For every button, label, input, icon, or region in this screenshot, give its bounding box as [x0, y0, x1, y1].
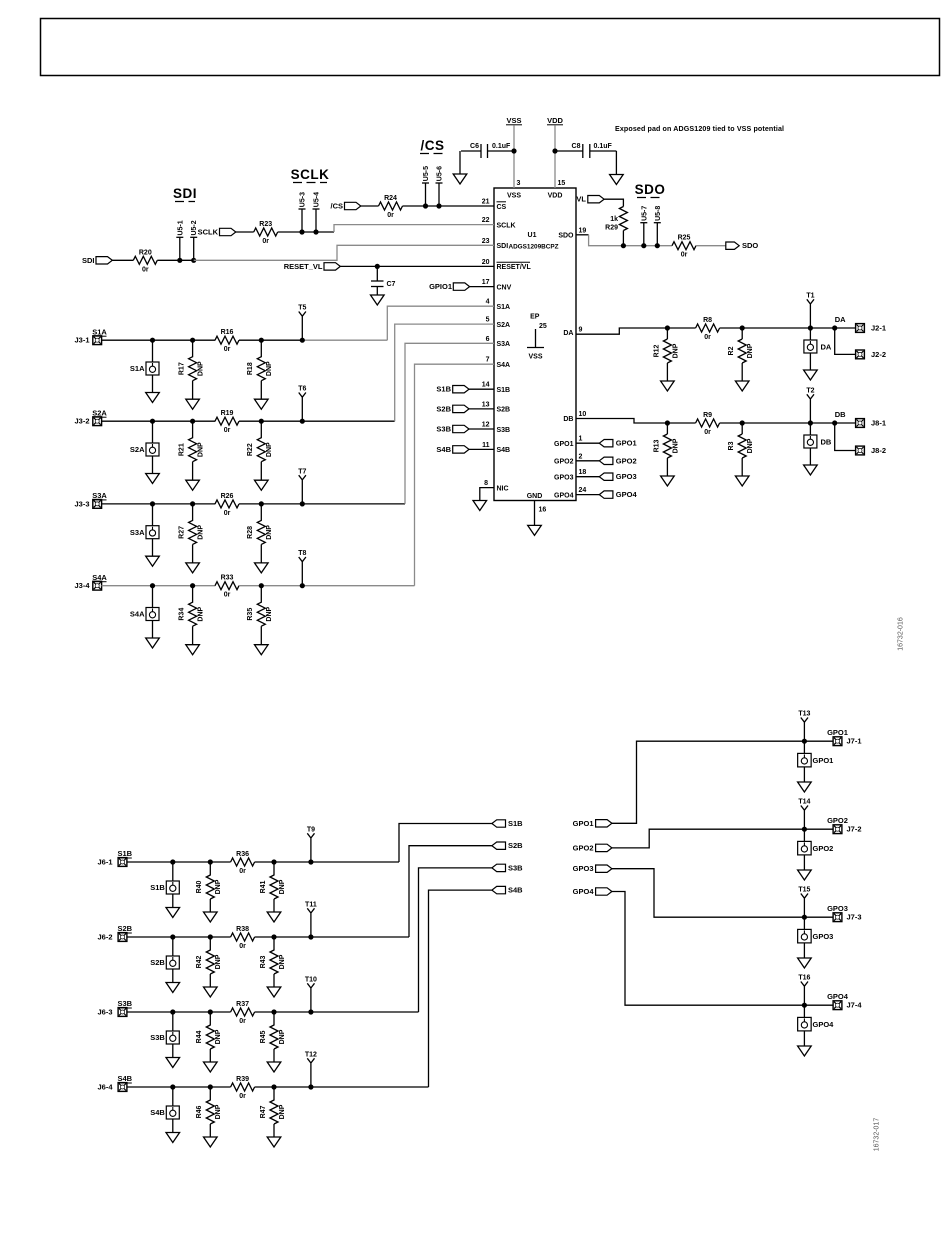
svg-text:R41: R41 — [260, 880, 267, 893]
svg-text:T14: T14 — [798, 799, 810, 806]
wire U1 pin 16 GND to ground — [534, 501, 536, 526]
svg-text:R36: R36 — [236, 851, 249, 858]
junction DB/R3 — [740, 420, 745, 425]
svg-text:R45: R45 — [260, 1030, 267, 1043]
svg-text:0r: 0r — [704, 429, 711, 436]
net label S4A — [92, 573, 107, 582]
connector J3-4 — [74, 581, 101, 590]
net label VDD (power) — [547, 116, 563, 125]
wire R38 to riser — [255, 936, 409, 938]
svg-text:7: 7 — [486, 357, 490, 364]
resistor R47 DNP — [260, 1087, 286, 1124]
junction GPO4/T16 — [802, 1003, 807, 1008]
resistor R23 0r — [254, 221, 278, 245]
svg-text:R25: R25 — [678, 235, 691, 242]
wire R29 to SDO net — [622, 231, 624, 246]
junction S4B/R47 — [271, 1084, 276, 1089]
svg-text:S3B: S3B — [150, 1033, 165, 1042]
svg-text:0r: 0r — [681, 252, 688, 259]
svg-text:0r: 0r — [224, 346, 231, 353]
connector pin U5-1 — [179, 237, 181, 260]
svg-text:3: 3 — [517, 180, 521, 187]
svg-text:DNP: DNP — [198, 442, 205, 457]
svg-text:U5-6: U5-6 — [437, 166, 444, 181]
wire R19 to riser — [239, 420, 395, 422]
port flag S4B (output) — [492, 886, 523, 895]
svg-text:GPO2: GPO2 — [573, 843, 594, 852]
wire J6-1 to R36 — [127, 861, 231, 863]
junction SDI/U5-1 — [177, 258, 182, 263]
svg-text:S1B: S1B — [497, 387, 511, 394]
wire S1A riser to U1 — [387, 306, 494, 340]
wire J6-2 to R38 — [127, 936, 231, 938]
test point S4A — [130, 586, 159, 621]
svg-text:GPO4: GPO4 — [827, 992, 849, 1001]
svg-text:VSS: VSS — [528, 354, 542, 361]
svg-text:S4B: S4B — [436, 445, 451, 454]
net label VSS (power) — [506, 116, 522, 125]
wire R39 to riser — [255, 1086, 429, 1088]
svg-text:S1B: S1B — [150, 883, 165, 892]
wire RESET_VL to U1 pin 20 — [340, 265, 494, 267]
ground (C6) — [453, 151, 467, 184]
wire S4A riser to U1 — [415, 364, 495, 586]
junction DA/T1 — [808, 325, 813, 330]
svg-text:S3A: S3A — [92, 491, 107, 500]
connector J2-1 — [856, 324, 886, 333]
svg-text:C6: C6 — [470, 143, 479, 150]
port flag GPO2 (input) — [573, 843, 612, 852]
wire R20 to U5 stubs — [157, 259, 193, 261]
svg-text:R13: R13 — [653, 439, 660, 452]
svg-text:S1A: S1A — [92, 327, 107, 336]
svg-text:T1: T1 — [806, 292, 814, 299]
connector pin U5-8 — [656, 223, 658, 246]
resistor R40 DNP — [196, 862, 222, 899]
svg-text:S1A: S1A — [130, 364, 145, 373]
capacitor C7 — [371, 266, 396, 288]
test point DA (square) — [804, 328, 832, 353]
svg-text:ADGS1209BCPZ: ADGS1209BCPZ — [508, 244, 558, 251]
wire R25 to SDO flag — [696, 245, 726, 247]
net label /CS (bus name) — [420, 138, 445, 154]
svg-text:DNP: DNP — [279, 1104, 286, 1119]
svg-text:S2B: S2B — [150, 958, 165, 967]
svg-text:0r: 0r — [224, 592, 231, 599]
ground (GPO3 test point) — [798, 943, 812, 968]
svg-text:R3: R3 — [728, 441, 735, 450]
ground (S3A test point) — [146, 539, 160, 567]
wire S3B riser to flag — [419, 868, 492, 1012]
svg-text:0r: 0r — [239, 1093, 246, 1100]
U1 exposed pad EP pin 25 tied to VSS — [527, 314, 547, 361]
junction S2B/R43 — [271, 934, 276, 939]
svg-text:S1B: S1B — [118, 849, 133, 858]
svg-text:DB: DB — [835, 410, 846, 419]
svg-text:GPO3: GPO3 — [616, 472, 637, 481]
port flag VL (input) — [576, 195, 604, 204]
resistor R22 DNP — [247, 421, 273, 462]
junction DA/branch — [832, 325, 837, 330]
svg-text:R38: R38 — [236, 926, 249, 933]
junction CS/U5-5 — [423, 203, 428, 208]
junction S4A/testpoint — [150, 583, 155, 588]
junction S1A/R17 — [190, 338, 195, 343]
resistor R26 0r — [215, 493, 239, 517]
svg-text:5: 5 — [486, 317, 490, 324]
resistor R9 0r — [696, 412, 720, 436]
junction VSS/C6 — [511, 148, 516, 153]
wire S3A riser to U1 — [405, 343, 494, 504]
ground (R44) — [204, 1049, 218, 1072]
junction DB/R13 — [665, 420, 670, 425]
svg-text:S3B: S3B — [436, 425, 451, 434]
connector J8-1 — [856, 419, 886, 428]
svg-text:J7-4: J7-4 — [847, 1001, 863, 1010]
svg-text:R17: R17 — [179, 362, 186, 375]
svg-text:DB: DB — [821, 438, 832, 447]
svg-text:T12: T12 — [305, 1051, 317, 1058]
resistor R45 DNP — [260, 1012, 286, 1049]
svg-text:SCLK: SCLK — [497, 222, 516, 229]
svg-text:J7-2: J7-2 — [847, 825, 862, 834]
test point GPO2 (square) — [798, 829, 834, 855]
svg-text:T13: T13 — [798, 711, 810, 718]
net label S1B — [118, 849, 133, 858]
svg-text:J3-4: J3-4 — [74, 581, 90, 590]
port flag S3B (to U1) — [436, 425, 469, 434]
connector J7-2 — [833, 825, 861, 834]
svg-text:23: 23 — [482, 238, 490, 245]
junction GPO2/T14 — [802, 827, 807, 832]
port flag RESET_VL (input) — [284, 262, 341, 271]
port flag GPO2 (output) — [599, 456, 636, 465]
junction S3A/R28 — [259, 501, 264, 506]
svg-text:GPO1: GPO1 — [573, 819, 594, 828]
wire S2A riser to U1 — [395, 324, 494, 421]
svg-text:S4A: S4A — [130, 610, 145, 619]
svg-text:R26: R26 — [221, 493, 234, 500]
net label SDI (bus name) — [173, 186, 197, 202]
resistor R2 DNP — [728, 328, 754, 363]
wire SDI flag to R20 — [112, 259, 133, 261]
svg-text:R34: R34 — [179, 608, 186, 621]
wire GPO1 flag to row — [612, 741, 805, 823]
resistor R35 DNP — [247, 586, 273, 627]
resistor R8 0r — [696, 317, 720, 341]
ground (C8) — [610, 151, 624, 185]
junction SCLK/U5-3 — [299, 229, 304, 234]
wire SDI net to U1 pin 23 — [194, 245, 494, 260]
wire branch to J2-2 — [835, 328, 855, 354]
svg-text:VSS: VSS — [506, 116, 521, 125]
resistor R33 0r — [215, 575, 239, 599]
test point GPO4 (square) — [798, 1005, 835, 1031]
svg-text:DNP: DNP — [266, 525, 273, 540]
svg-text:S2A: S2A — [497, 322, 511, 329]
ground (R2) — [735, 363, 749, 391]
svg-text:DNP: DNP — [215, 1104, 222, 1119]
svg-text:0.1uF: 0.1uF — [594, 143, 613, 150]
svg-text:0r: 0r — [387, 212, 394, 219]
junction S2A/testpoint — [150, 419, 155, 424]
ground (R41) — [267, 899, 281, 922]
U1 pin name CS (active low) — [497, 202, 507, 211]
svg-text:0r: 0r — [262, 238, 269, 245]
test point T1 — [807, 299, 814, 328]
connector pin U5-4 — [315, 209, 317, 232]
junction S4A/T8 — [300, 583, 305, 588]
svg-text:GPO2: GPO2 — [616, 456, 637, 465]
wire DA row — [667, 327, 695, 329]
svg-text:R24: R24 — [384, 195, 397, 202]
svg-text:NIC: NIC — [497, 485, 509, 492]
svg-text:T2: T2 — [806, 387, 814, 394]
wire VSS to U1 pin 3 — [513, 126, 515, 189]
port flag GPO3 (input) — [573, 864, 612, 873]
svg-text:/CS: /CS — [420, 138, 444, 153]
svg-text:R16: R16 — [221, 329, 234, 336]
connector J6-4 — [97, 1083, 126, 1092]
junction S1B/testpoint — [170, 859, 175, 864]
junction S1A/R18 — [259, 338, 264, 343]
svg-text:16: 16 — [539, 507, 547, 514]
wire R16 to riser — [239, 339, 302, 341]
test point DB (square) — [804, 423, 832, 448]
svg-text:S3B: S3B — [118, 999, 133, 1008]
junction S1A/testpoint — [150, 338, 155, 343]
test point T7 — [299, 475, 306, 504]
svg-text:1k: 1k — [610, 216, 618, 223]
svg-text:S2A: S2A — [92, 408, 107, 417]
test point S1A — [130, 340, 159, 375]
resistor R42 DNP — [196, 937, 222, 974]
resistor R44 DNP — [196, 1012, 222, 1049]
svg-text:J6-3: J6-3 — [97, 1008, 112, 1017]
svg-text:DNP: DNP — [215, 879, 222, 894]
junction S2A/T6 — [300, 419, 305, 424]
ground (R40) — [204, 899, 218, 922]
svg-text:R28: R28 — [247, 526, 254, 539]
svg-text:R20: R20 — [139, 249, 152, 256]
svg-text:22: 22 — [482, 217, 490, 224]
port flag GPO3 (output) — [599, 472, 636, 481]
svg-text:U5-8: U5-8 — [655, 206, 662, 221]
svg-text:GPO1: GPO1 — [827, 728, 848, 737]
svg-text:DNP: DNP — [279, 1029, 286, 1044]
svg-text:R29: R29 — [605, 225, 618, 232]
svg-text:0r: 0r — [224, 510, 231, 517]
resistor R3 DNP — [728, 423, 754, 458]
svg-text:0r: 0r — [224, 427, 231, 434]
ground (S3B test point) — [166, 1044, 180, 1068]
wire J6-3 to R37 — [127, 1011, 231, 1013]
resistor R46 DNP — [196, 1087, 222, 1124]
junction S4B/R46 — [208, 1084, 213, 1089]
svg-text:8: 8 — [484, 480, 488, 487]
svg-text:DNP: DNP — [279, 954, 286, 969]
ground (GPO4 test point) — [798, 1031, 812, 1056]
capacitor C8 0.1uF — [555, 143, 616, 158]
svg-text:R9: R9 — [703, 412, 712, 419]
svg-text:10: 10 — [579, 411, 587, 418]
wire R33 to riser — [239, 585, 415, 587]
resistor R16 0r — [215, 329, 239, 353]
wire R9 to DB pads — [720, 422, 855, 424]
junction S2A/R21 — [190, 419, 195, 424]
ground (R27) — [186, 544, 200, 573]
svg-text:SDI: SDI — [173, 186, 197, 201]
svg-text:J6-1: J6-1 — [97, 858, 112, 867]
svg-text:T9: T9 — [307, 826, 315, 833]
svg-text:J3-1: J3-1 — [74, 336, 89, 345]
junction S3B/testpoint — [170, 1009, 175, 1014]
port flag GPO1 (input) — [573, 819, 612, 828]
port flag GPIO1 (input) — [429, 282, 470, 291]
svg-text:GPO2: GPO2 — [554, 459, 574, 466]
svg-text:1: 1 — [579, 436, 583, 443]
ground (S2A test point) — [146, 456, 160, 484]
ground (S4B test point) — [166, 1119, 180, 1143]
test point S2A — [130, 421, 159, 456]
svg-text:24: 24 — [579, 487, 587, 494]
junction S4A/R35 — [259, 583, 264, 588]
ground (GND pin) — [528, 525, 542, 535]
svg-text:R37: R37 — [236, 1001, 249, 1008]
wire U1 pin 8 NIC to ground — [480, 488, 494, 501]
svg-text:GPO1: GPO1 — [813, 756, 834, 765]
ground (R42) — [204, 974, 218, 997]
test point T9 — [307, 833, 314, 862]
resistor R34 DNP — [179, 586, 205, 627]
svg-text:GPO4: GPO4 — [573, 887, 595, 896]
svg-text:0.1uF: 0.1uF — [492, 143, 511, 150]
ground (R34) — [186, 626, 200, 655]
resistor R38 0r — [231, 926, 255, 950]
ground (R46) — [204, 1124, 218, 1147]
wire S1B flag to U1 — [469, 388, 494, 390]
svg-text:14: 14 — [482, 382, 490, 389]
svg-text:DNP: DNP — [266, 442, 273, 457]
connector J7-1 — [833, 737, 861, 746]
wire S4B riser to flag — [429, 890, 492, 1087]
junction S2A/R22 — [259, 419, 264, 424]
junction S4B/T12 — [308, 1084, 313, 1089]
connector J7-4 — [833, 1001, 862, 1010]
svg-text:0r: 0r — [239, 868, 246, 875]
ground (DA test point) — [804, 353, 818, 380]
svg-text:GPO4: GPO4 — [616, 490, 638, 499]
net label SDO (bus name) — [635, 182, 666, 198]
svg-text:SCLK: SCLK — [291, 167, 330, 182]
wire J3-2 to R19 — [101, 420, 215, 422]
svg-text:11: 11 — [482, 442, 490, 449]
svg-text:R47: R47 — [260, 1105, 267, 1118]
svg-text:16732-016: 16732-016 — [898, 617, 905, 651]
svg-text:RESET_VL: RESET_VL — [284, 262, 323, 271]
svg-text:DNP: DNP — [672, 343, 679, 358]
svg-text:R23: R23 — [259, 221, 272, 228]
svg-text:GPO3: GPO3 — [554, 474, 574, 481]
svg-text:S4B: S4B — [118, 1074, 133, 1083]
wire SCLK net to U1 pin 22 — [334, 225, 494, 232]
svg-text:GPO1: GPO1 — [554, 441, 574, 448]
svg-text:S3A: S3A — [497, 341, 511, 348]
connector J6-2 — [97, 933, 126, 942]
wire U1 GPO1 to flag — [576, 442, 599, 444]
wire SCLK flag to R23 — [236, 231, 254, 233]
svg-text:21: 21 — [482, 199, 490, 206]
test point T12 — [307, 1058, 314, 1087]
svg-text:R43: R43 — [260, 955, 267, 968]
svg-text:J8-2: J8-2 — [871, 446, 886, 455]
wire SDO net run — [589, 235, 672, 246]
junction SDO/R29 — [621, 243, 626, 248]
svg-text:C8: C8 — [572, 143, 581, 150]
ground (R47) — [267, 1124, 281, 1147]
ground (R21) — [186, 462, 200, 491]
svg-text:Exposed pad on ADGS1209 tied t: Exposed pad on ADGS1209 tied to VSS pote… — [615, 125, 784, 133]
wire U1 pin 19 SDO out — [576, 234, 589, 236]
wire GPIO1 to U1 pin 17 CNV — [470, 286, 494, 288]
junction S4B/testpoint — [170, 1084, 175, 1089]
svg-text:SDO: SDO — [558, 233, 574, 240]
svg-text:6: 6 — [486, 336, 490, 343]
svg-text:DNP: DNP — [747, 343, 754, 358]
connector J3-2 — [74, 417, 101, 426]
junction S4A/R34 — [190, 583, 195, 588]
net label S2A — [92, 408, 107, 417]
svg-text:19: 19 — [579, 227, 587, 234]
ground (S2B test point) — [166, 969, 180, 993]
test point GPO1 (square) — [798, 741, 834, 767]
port flag GPO4 (input) — [573, 887, 612, 896]
svg-text:DNP: DNP — [747, 438, 754, 453]
svg-text:T5: T5 — [298, 305, 306, 312]
port flag S1B (to U1) — [436, 385, 469, 394]
net label S3A — [92, 491, 107, 500]
port flag S1B (output) — [492, 819, 523, 828]
svg-text:U5-1: U5-1 — [177, 220, 184, 235]
connector J3-3 — [74, 499, 101, 508]
svg-text:16732-017: 16732-017 — [874, 1118, 881, 1152]
connector J6-1 — [97, 858, 126, 867]
wire J3-1 to R16 — [101, 339, 215, 341]
wire VDD to U1 pin 15 — [554, 126, 556, 189]
svg-text:R35: R35 — [247, 608, 254, 621]
svg-text:R46: R46 — [196, 1105, 203, 1118]
ground (R18) — [255, 381, 269, 410]
svg-text:U5-7: U5-7 — [641, 206, 648, 221]
U1 pin name RESET/VL (active low) — [497, 262, 532, 271]
svg-text:T16: T16 — [798, 975, 810, 982]
wire S2B flag to U1 — [469, 408, 494, 410]
net label S2B — [118, 924, 133, 933]
svg-text:R33: R33 — [221, 575, 234, 582]
ground (S1B test point) — [166, 894, 180, 918]
svg-text:GPO1: GPO1 — [616, 439, 637, 448]
svg-text:U5-3: U5-3 — [300, 192, 307, 207]
port flag SDO (output) — [726, 241, 759, 250]
wire R37 to riser — [255, 1011, 419, 1013]
svg-text:R8: R8 — [703, 317, 712, 324]
port flag S3B (output) — [492, 863, 523, 872]
svg-text:VDD: VDD — [547, 116, 563, 125]
svg-text:J3-2: J3-2 — [74, 417, 89, 426]
wire J3-4 to R33 — [101, 585, 215, 587]
wire R8 to DA pads — [720, 327, 855, 329]
junction GPO3/T15 — [802, 915, 807, 920]
